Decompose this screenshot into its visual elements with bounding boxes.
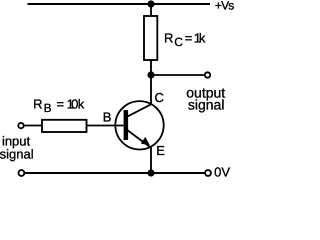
svg-text:0V: 0V xyxy=(214,165,230,180)
transistor Q1 collector lead xyxy=(127,104,152,117)
ground-right terminal circle xyxy=(205,170,211,176)
svg-text:+Vs: +Vs xyxy=(215,0,234,13)
transistor Q1 circle xyxy=(115,101,163,149)
resistor RC body xyxy=(144,16,157,60)
resistor RB body xyxy=(42,120,87,132)
svg-text:R: R xyxy=(164,31,173,46)
svg-text:=: = xyxy=(185,31,193,46)
svg-text:=: = xyxy=(57,97,65,112)
svg-text:E: E xyxy=(156,143,165,158)
transistor Q1 emitter lead xyxy=(127,130,151,148)
wire: RC bottom to collector junction xyxy=(150,60,152,75)
node collector junction dot xyxy=(147,71,154,78)
svg-text:B: B xyxy=(44,101,52,115)
transistor Q1 base bar xyxy=(124,110,129,140)
wire: RB to base xyxy=(87,125,124,127)
wire: emitter down to 0V rail xyxy=(150,147,152,173)
ground-left terminal circle xyxy=(19,170,25,176)
transistor Q1 emitter arrowhead xyxy=(141,137,150,145)
svg-text:B: B xyxy=(103,109,112,124)
svg-text:k: k xyxy=(78,97,85,112)
wire: collector junction down to transistor xyxy=(150,75,152,105)
svg-text:k: k xyxy=(199,31,206,46)
wire: +Vs top rail xyxy=(28,3,211,5)
node emitter junction dot on 0V rail xyxy=(147,169,154,176)
node junction dot on +Vs rail xyxy=(147,0,154,7)
wire: collector junction to output terminal xyxy=(151,74,205,76)
svg-text:C: C xyxy=(155,90,164,105)
svg-text:signal: signal xyxy=(0,147,34,162)
input terminal circle xyxy=(18,123,23,128)
wire: input terminal to RB xyxy=(24,125,42,127)
svg-text:signal: signal xyxy=(188,97,225,113)
output terminal circle xyxy=(205,72,210,77)
wire: top rail to RC xyxy=(150,4,152,17)
svg-text:R: R xyxy=(33,97,42,112)
svg-text:C: C xyxy=(174,35,183,49)
wire: 0V bottom rail xyxy=(24,172,205,174)
